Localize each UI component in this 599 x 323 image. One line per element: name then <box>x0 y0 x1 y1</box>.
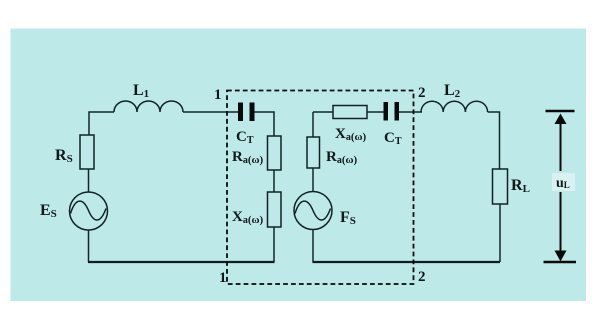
label uL halo <box>552 173 575 191</box>
inductor L2 <box>421 101 488 112</box>
uL arrow bottom bar <box>544 261 577 263</box>
wire: between Ra and Xa boxes <box>273 170 275 192</box>
wire: L2 to RL corner <box>488 112 500 169</box>
wire: RL to bottom rail <box>499 204 501 262</box>
wire: bottom-right rail <box>313 261 501 263</box>
svg-text:2: 2 <box>418 269 426 285</box>
uL arrow shaft <box>560 121 562 171</box>
svg-text:1: 1 <box>219 270 227 286</box>
wire: FS corner to Xa(w) series box <box>313 111 333 113</box>
resistor RL box <box>493 169 508 204</box>
source FS circle with sine <box>294 192 332 230</box>
wire: cap to L2 <box>399 111 422 113</box>
resistor Xa(w) branch-1 box <box>268 192 282 227</box>
resistor Xa(w) series box (horizontal) <box>333 106 367 119</box>
source Es circle with sine <box>70 192 108 230</box>
uL arrow up head <box>555 114 567 125</box>
svg-text:1: 1 <box>214 87 222 103</box>
inductor L1 <box>114 101 183 112</box>
wire: FS branch top corner down to Ra box <box>312 112 314 137</box>
wire: left loop top from Rs corner to L1 <box>89 112 114 135</box>
dashed two-port box 1-1' 2-2' <box>227 91 414 285</box>
uL arrow down head <box>555 251 567 262</box>
wire: cap to branch-1 corner, down to Ra box <box>255 112 275 136</box>
capacitor CT left plates <box>238 103 243 122</box>
uL arrow top bar <box>546 110 575 112</box>
svg-text:2: 2 <box>418 85 426 101</box>
wire: Ra box to FS circle <box>312 168 314 192</box>
wire: Xa box to CT right cap <box>367 111 384 113</box>
wire: L1 to capacitor CT left <box>183 111 238 113</box>
resistor Ra(w) FS-branch box <box>307 137 320 168</box>
capacitor CT right plates <box>384 102 389 121</box>
wire: Es to bottom-left rail <box>88 230 90 262</box>
resistor Rs box <box>80 135 94 169</box>
wire: FS circle to bottom-right rail <box>312 230 314 263</box>
resistor Ra(w) branch-1 box <box>268 136 282 170</box>
wire: bottom-left rail <box>88 261 275 263</box>
wire: left vertical Rs to Es <box>88 169 90 193</box>
wire: Xa box down to bottom rail <box>273 227 275 262</box>
